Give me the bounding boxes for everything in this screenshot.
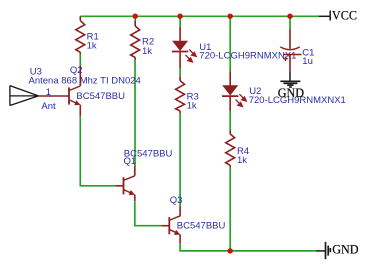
LED U2 [222,72,246,112]
wire R3 to Q3 collector [179,114,181,206]
wire top to U1 [179,16,181,27]
capacitor C1 [280,29,301,72]
svg-text:GND: GND [332,243,359,257]
resistor R1 [76,16,85,54]
ground flag right [316,242,331,259]
svg-text:1k: 1k [142,46,152,57]
svg-text:BC547BBU: BC547BBU [177,221,226,232]
wire Q3 emitter to bottom rail [180,243,316,251]
svg-text:Ant: Ant [41,101,56,112]
wire R1 to Q2 collector [79,55,81,66]
wire Q1 emitter to Q3 base [135,201,162,226]
wire U2 to R4 [229,111,231,130]
wire R4 to bottom rail [229,168,231,251]
svg-text:1k: 1k [87,40,97,51]
svg-text:Q3: Q3 [170,195,183,206]
svg-text:Antena 868 Mhz TI DN024: Antena 868 Mhz TI DN024 [29,76,141,87]
resistor R3 [176,76,185,113]
wire Q2 emitter to Q1 base [80,116,115,186]
power flag VCC [319,11,331,21]
transistor Q2 [69,66,81,116]
node junction U2 top [228,14,233,19]
LED U1 [172,27,196,68]
wire VCC top rail [80,15,318,17]
node junction C1 top [287,14,292,19]
node junction R4 bottom [228,248,233,253]
wire antenna to Q2 base [38,95,69,97]
svg-text:Q2: Q2 [70,65,83,76]
ground under C1 [280,71,300,87]
node junction U1 top [177,14,182,19]
svg-text:720-LCGH9RNMXNX1: 720-LCGH9RNMXNX1 [199,50,296,61]
wire top to C1 [289,16,291,28]
antenna U3 [10,86,39,106]
svg-text:1k: 1k [187,101,197,112]
svg-text:1u: 1u [302,56,313,67]
resistor R2 [131,21,140,60]
svg-text:BC547BBU: BC547BBU [76,91,125,102]
wire top to R2 [134,16,136,21]
wire R2 to Q1 collector [134,60,136,166]
svg-text:Q1: Q1 [124,156,137,167]
node junction R2 top [133,14,138,19]
transistor Q1 [124,166,136,201]
transistor Q3 [169,206,180,243]
resistor R4 [226,131,235,168]
svg-text:VCC: VCC [332,9,357,23]
svg-text:GND: GND [278,86,305,100]
wire top to U2 [229,16,231,71]
svg-text:1k: 1k [237,155,247,166]
wire U1 to R3 [179,68,181,76]
